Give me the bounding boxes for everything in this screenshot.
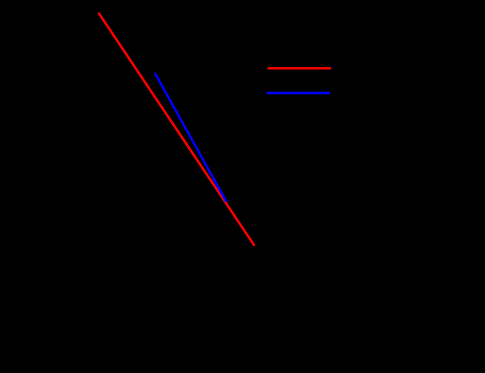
- legend blue sample: [267, 92, 331, 94]
- blue line (data): [155, 74, 226, 201]
- red line (fit): [99, 14, 254, 246]
- legend red sample: [268, 67, 332, 69]
